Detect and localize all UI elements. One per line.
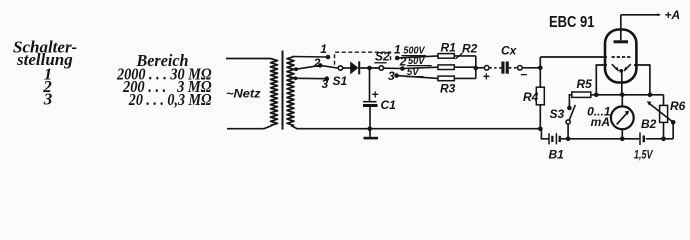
node R join [474, 66, 479, 71]
svg-text:R6: R6 [670, 99, 686, 113]
node S1 contact 1 [326, 55, 331, 60]
wire R4 bottom [539, 105, 541, 129]
node R6 bottom [661, 137, 666, 142]
node S1 contact 3 [325, 76, 330, 81]
svg-text:C1: C1 [381, 98, 397, 112]
svg-text:3: 3 [43, 90, 53, 109]
switch S1 pole [338, 66, 342, 70]
wire contact2 to R2 [402, 67, 438, 68]
svg-text:+: + [372, 88, 379, 102]
svg-text:~Netz: ~Netz [226, 87, 261, 101]
wire tap 1 [293, 56, 329, 59]
svg-text:B1: B1 [549, 148, 565, 162]
wire cathode down [621, 71, 623, 95]
svg-text:2: 2 [313, 56, 321, 70]
svg-text:mA: mA [591, 115, 610, 129]
svg-text:1: 1 [320, 42, 327, 56]
wire R5 to cathode rail [591, 94, 664, 96]
terminal + [484, 66, 489, 71]
wire step down to battery rail [541, 129, 548, 139]
wire rail S3 to meter [568, 138, 639, 140]
node S2 contact 2 [400, 66, 405, 71]
tube V1 EBC91 envelope [605, 30, 636, 83]
wire contact1 to R1 [397, 56, 438, 58]
node cathode/meter [620, 93, 625, 98]
transformer core [282, 51, 284, 130]
node C1 ground junction [367, 126, 372, 131]
svg-text:R5: R5 [577, 77, 593, 91]
switch S3 [567, 124, 569, 139]
R6 wiper [650, 104, 674, 123]
potentiometer R6 [663, 95, 665, 106]
transformer T1 primary winding [271, 59, 278, 126]
battery B1 [548, 133, 550, 144]
battery B2 [639, 133, 641, 146]
svg-text:S2: S2 [375, 50, 390, 64]
transformer T1 secondary winding [287, 57, 294, 126]
node S2 contact 1 [395, 56, 400, 61]
wire +A [621, 14, 658, 16]
resistor R4 [536, 87, 544, 105]
ground [369, 129, 371, 137]
wire diode to S2 [360, 67, 381, 69]
tube anode [614, 40, 629, 43]
wire tap 2 [296, 65, 320, 69]
svg-text:S1: S1 [333, 74, 348, 88]
wire S1 pole to diode [343, 67, 351, 69]
wire heater right [634, 65, 650, 95]
node C1 tap [367, 66, 372, 71]
svg-text:B2: B2 [641, 117, 657, 131]
wire heater left [596, 65, 607, 95]
svg-text:Cx: Cx [501, 44, 518, 58]
resistor R5 [572, 92, 591, 97]
mechanical link dashed S1-S2 [335, 52, 391, 65]
node heater left [594, 93, 599, 98]
terminal - [518, 66, 523, 71]
tube grid [612, 56, 631, 58]
wire to + terminal [476, 67, 484, 69]
node R4/rail [538, 126, 543, 131]
wire B1 to S3 [561, 138, 568, 140]
svg-text:1,5V: 1,5V [634, 148, 653, 162]
tube cathode/heater [612, 64, 619, 71]
svg-text:−: − [520, 68, 527, 82]
node S2 contact 3 [394, 73, 399, 78]
wire tap 3 [296, 77, 327, 79]
capacitor C1 [369, 68, 371, 101]
node grid junction [538, 66, 543, 71]
svg-text:+: + [483, 70, 490, 84]
wire resistor outputs join [454, 55, 476, 57]
svg-text:EBC 91: EBC 91 [549, 14, 595, 31]
svg-text:R3: R3 [440, 82, 456, 96]
node S1 contact 2 [318, 63, 323, 68]
wire S3 contact to R5 [569, 95, 571, 108]
wire mains top [226, 58, 271, 60]
wire grid riser [539, 57, 541, 87]
node S3 rail [566, 137, 571, 142]
svg-text:3: 3 [388, 69, 395, 83]
svg-text:R2: R2 [462, 42, 478, 56]
meter M 0...1mA [621, 95, 623, 107]
svg-text:R1: R1 [441, 41, 457, 55]
wire secondary bottom to ground rail [291, 126, 542, 129]
resistor R3 [438, 76, 454, 81]
capacitor Cx dashed leads [490, 67, 502, 69]
resistor R2 [438, 65, 454, 70]
svg-text:R4: R4 [523, 90, 539, 104]
svg-text:20 . . . 0,3 MΩ: 20 . . . 0,3 MΩ [128, 90, 212, 109]
svg-text:S3: S3 [550, 107, 565, 121]
node tap 3 junction [294, 76, 298, 80]
switch S2 arm [384, 67, 403, 69]
wire grid horizontal [540, 56, 607, 58]
resistor R1 [438, 54, 454, 59]
node heater right [648, 93, 653, 98]
switch S2 pole [379, 66, 383, 70]
svg-text:+A: +A [665, 8, 681, 22]
wire B2 to R6 [646, 138, 673, 140]
wire contact3 to R3 [397, 76, 438, 79]
wire mains bottom [227, 126, 272, 129]
svg-text:3: 3 [322, 77, 329, 91]
wire - terminal to grid node [522, 67, 540, 69]
diode D1 [350, 61, 358, 74]
node tap 2 junction [294, 67, 298, 71]
switch S1 arm [320, 65, 337, 68]
